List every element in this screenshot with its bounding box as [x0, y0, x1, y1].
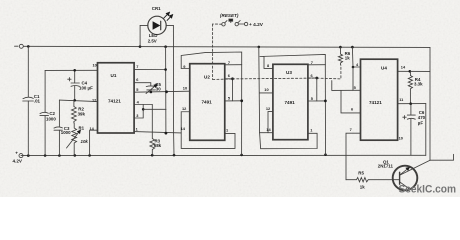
svg-text:7491: 7491 [285, 100, 296, 105]
svg-text:39k: 39k [78, 111, 86, 116]
wire U4 pin5 tap from reset dashed line [332, 81, 353, 91]
capacitor C2 [44, 70, 46, 112]
svg-text:7: 7 [136, 64, 138, 69]
node junction dots on top rail [27, 45, 354, 48]
svg-text:+: + [15, 151, 18, 156]
wire U2 pin7 [225, 64, 242, 66]
svg-text:74121: 74121 [369, 100, 382, 105]
svg-text:U1: U1 [111, 73, 117, 78]
wire RESET dashed [213, 24, 341, 80]
svg-text:68k: 68k [154, 143, 162, 148]
svg-text:7: 7 [311, 60, 313, 65]
wire U3 feed vertical from rail [258, 47, 261, 133]
wire jumper tap to pin1 net [143, 108, 166, 110]
wire U1 pin1 to U2 pins 12-14 [134, 132, 181, 133]
wire U3 pin8 over-the-top [260, 55, 326, 69]
svg-text:3.3k: 3.3k [414, 82, 423, 87]
capacitor C3 [58, 100, 60, 127]
wire top rail right drop to collector [429, 47, 431, 160]
capacitor C6 [410, 104, 412, 115]
capacitor C5 variable [146, 85, 155, 88]
wire C2 top to U1 pin10 [45, 69, 97, 71]
resistor R1 variable [72, 123, 77, 155]
wire C3 top to U1 pin12 [59, 100, 97, 102]
wire U4 pin7 to transistor base [346, 133, 361, 180]
svg-text:7: 7 [350, 127, 352, 132]
svg-text:4.2V: 4.2V [13, 159, 23, 164]
wire top rail [24, 46, 431, 47]
wire U4 pin14 [398, 70, 430, 72]
resistor R4 [408, 71, 412, 103]
svg-text:1k: 1k [345, 56, 350, 61]
node terminal plus bottom left [19, 154, 23, 158]
svg-text:.01: .01 [34, 99, 41, 104]
wire LED right lead down [172, 25, 175, 155]
wire U3 pin5 [308, 100, 326, 102]
pin number labels [90, 60, 406, 141]
svg-text:CR1: CR1 [152, 6, 161, 11]
resistor R3 [150, 105, 155, 156]
wire U4 pin11 [398, 103, 426, 105]
wire U3 right vertical to bottom rail [324, 65, 326, 155]
wire U1 pin6 to C5 [134, 83, 151, 86]
svg-text:100 µF: 100 µF [79, 85, 93, 90]
wire U3 pin7 [308, 64, 325, 66]
svg-text:10: 10 [93, 62, 97, 67]
svg-text:U4: U4 [381, 65, 387, 70]
svg-text:1000: 1000 [61, 130, 71, 135]
resistor R5 [346, 178, 400, 182]
wire U2 pin5 [225, 100, 242, 102]
node terminal minus top left [19, 44, 23, 48]
transistor Q1 2N1711 [393, 166, 418, 191]
wire U2 pin1 wrap-around [181, 133, 235, 148]
svg-text:(RESET): (RESET) [220, 13, 239, 18]
wire U1 pin5 to U2 pin10 [134, 91, 190, 92]
capacitor C4 [74, 70, 76, 83]
svg-text:30: 30 [156, 86, 161, 91]
svg-text:10: 10 [264, 87, 268, 92]
svg-text:7491: 7491 [202, 99, 213, 104]
svg-text:µF: µF [418, 120, 424, 125]
LED CR1 [148, 16, 166, 34]
svg-text:U2: U2 [204, 75, 210, 80]
svg-text:1k: 1k [360, 184, 365, 189]
wire U4 pin6 [341, 90, 361, 113]
wire U3 pin6 stub and riser [308, 78, 317, 101]
wire U1 pins 4-3 jumper [134, 104, 152, 106]
IC U1 74121 box [98, 63, 135, 133]
wire U1 pin7 [134, 69, 166, 71]
LED light arrows [164, 12, 173, 21]
svg-text:10k: 10k [81, 139, 89, 144]
IC U4 74121 box [361, 59, 398, 140]
svg-text:2.5V: 2.5V [148, 38, 157, 43]
wire U1 pin14 to bottom rail [90, 130, 98, 155]
svg-text:SeekIC.com: SeekIC.com [399, 183, 457, 195]
IC U2 7491 box [190, 64, 225, 141]
svg-text:+ 4.2V: + 4.2V [249, 22, 264, 28]
svg-text:7: 7 [228, 60, 230, 65]
switch S1 RESET pushbutton [222, 23, 225, 26]
wire bottom rail [21, 154, 426, 156]
wire U2 right vertical to bottom rail [241, 65, 243, 155]
node junction dots on bottom rail [27, 153, 327, 157]
wire U3 pin10 [260, 92, 273, 94]
svg-text:74121: 74121 [108, 99, 121, 104]
wire U4 pin11 drop to bottom rail end [425, 104, 427, 156]
IC U3 7491 box [273, 64, 308, 139]
capacitor C1 [27, 46, 29, 97]
svg-text:10: 10 [399, 135, 403, 140]
svg-text:R5: R5 [358, 170, 364, 175]
wire U2 pin9 over-the-top [181, 52, 242, 69]
resistor R2 [72, 100, 77, 123]
svg-text:U3: U3 [286, 70, 292, 75]
wire U3 pin14 wrap [260, 132, 273, 134]
svg-text:10: 10 [183, 86, 187, 91]
wire U3 pin12 stub [268, 112, 273, 133]
IC designators [108, 65, 387, 105]
svg-text:R1: R1 [79, 125, 85, 130]
resistor R6 [338, 47, 342, 65]
svg-text:1000: 1000 [46, 116, 56, 121]
wire U4 pins 4-5 from rail [352, 47, 360, 67]
svg-text:470: 470 [418, 115, 426, 120]
wire U2 pin6 stub and riser [225, 79, 233, 101]
svg-text:2N1711: 2N1711 [378, 164, 394, 169]
